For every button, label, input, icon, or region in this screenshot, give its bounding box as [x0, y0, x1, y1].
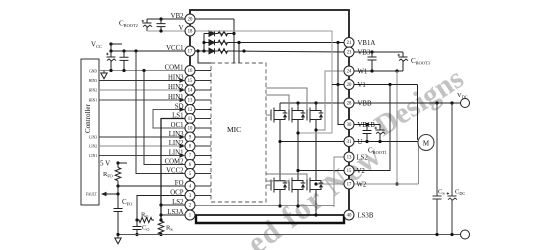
- wire V net left: [147, 29, 185, 32]
- capacitor CBOOT2 electrolytic: [142, 19, 153, 31]
- capacitor C-vcc electrolytic: [106, 51, 116, 71]
- svg-text:VCC: VCC: [91, 41, 102, 50]
- svg-text:LS2: LS2: [172, 199, 184, 206]
- wire W2 internal: [314, 182, 344, 185]
- wire V1 external: [354, 83, 418, 140]
- mosfet Q2 (V high): [266, 95, 305, 127]
- wire LS2 left: [161, 204, 185, 206]
- svg-text:LIN2: LIN2: [89, 145, 97, 149]
- svg-text:VB3: VB3: [358, 49, 371, 56]
- svg-text:LIN1: LIN1: [89, 154, 97, 158]
- svg-text:CO: CO: [142, 225, 149, 232]
- wire LS2 sense internal: [195, 157, 344, 208]
- svg-text:LS3A: LS3A: [167, 209, 183, 216]
- Vcc supply terminal: [91, 41, 122, 52]
- svg-text:16: 16: [188, 69, 193, 74]
- capacitor CBOOT2 label: [119, 20, 138, 29]
- svg-text:MIC: MIC: [227, 125, 241, 134]
- svg-text:CBOOT2: CBOOT2: [119, 20, 138, 29]
- svg-text:Controller: Controller: [84, 104, 92, 133]
- mosfet Q1 (U high): [266, 103, 287, 127]
- motor M: [418, 135, 434, 151]
- svg-text:CFO: CFO: [122, 198, 132, 207]
- wire V2 internal: [296, 169, 344, 172]
- wire VCC1 net: [109, 49, 185, 52]
- svg-text:VCC1: VCC1: [166, 45, 183, 52]
- MIC dashed box U1: [211, 63, 266, 202]
- right pin numbers: [347, 41, 352, 219]
- capacitor C-vcc ceramic: [120, 51, 129, 71]
- svg-text:17: 17: [188, 50, 193, 55]
- wire LS1 down to shunt: [159, 119, 185, 222]
- module outline (SPM package): [190, 10, 349, 215]
- svg-text:FAULT: FAULT: [86, 193, 98, 197]
- resistor RS shunt: [158, 221, 173, 236]
- svg-text:40: 40: [347, 214, 352, 219]
- svg-text:LS3B: LS3B: [358, 212, 374, 219]
- svg-text:HIN1: HIN1: [168, 94, 183, 101]
- capacitor CBOOT2 ceramic: [157, 19, 166, 31]
- wire COM1/GND net: [99, 69, 185, 72]
- wire HIN3: [99, 78, 185, 82]
- wire COM2 from GND: [144, 71, 185, 165]
- svg-text:23: 23: [347, 51, 352, 56]
- wire W2 external to motor: [354, 145, 419, 184]
- svg-text:18: 18: [188, 30, 193, 35]
- resistor RO: [135, 212, 154, 223]
- svg-text:13: 13: [188, 99, 193, 104]
- svg-text:28: 28: [347, 102, 352, 107]
- wire FO: [116, 184, 185, 187]
- svg-text:CS: CS: [438, 189, 445, 196]
- svg-text:GND: GND: [89, 70, 97, 74]
- svg-text:LIN3: LIN3: [89, 136, 97, 140]
- svg-text:VBB: VBB: [358, 100, 372, 107]
- svg-text:24: 24: [347, 70, 352, 75]
- svg-text:RFO: RFO: [103, 171, 113, 178]
- wire HIN1: [99, 98, 185, 102]
- wire VBB to VDC: [354, 101, 461, 104]
- svg-text:LS1: LS1: [172, 113, 183, 120]
- svg-text:U: U: [358, 139, 363, 146]
- controller box: [81, 59, 99, 205]
- wire U phase internal: [278, 140, 344, 143]
- right pin name labels: [357, 40, 376, 220]
- VBB rail internal: [280, 101, 344, 104]
- thick bus LS3A to LS3B: [196, 215, 344, 223]
- phase node verticals: [280, 127, 316, 173]
- wire U external to motor: [354, 141, 418, 143]
- node Q6 source on LS3B line: [314, 213, 317, 216]
- capacitor CDC electrolytic: [447, 103, 466, 236]
- left pin numbers: [188, 18, 193, 219]
- wire LIN3: [99, 135, 185, 139]
- svg-text:LIN1: LIN1: [169, 150, 184, 157]
- 5V supply and resistor RFO: [100, 160, 127, 187]
- svg-text:VB2: VB2: [171, 13, 184, 20]
- svg-text:30: 30: [347, 123, 352, 128]
- capacitor CFO: [114, 194, 133, 235]
- wire W sense to W1: [314, 71, 344, 132]
- wire W net vertical: [395, 71, 398, 186]
- mosfet Q6 (W low): [266, 173, 323, 215]
- svg-text:OC1: OC1: [171, 122, 184, 129]
- svg-text:LIN3: LIN3: [169, 131, 184, 138]
- bootstrap diode D1 + resistor row1: [204, 31, 234, 37]
- wire VB1A to VB1B internal: [338, 43, 344, 125]
- wire LS3A left: [161, 214, 185, 216]
- svg-text:W2: W2: [357, 181, 367, 188]
- ground rail bottom: [115, 233, 465, 244]
- ground symbol (signal gnd arrow): [101, 71, 107, 79]
- svg-text:12: 12: [188, 108, 193, 113]
- svg-text:5 V: 5 V: [100, 160, 110, 168]
- svg-text:CBOOT1: CBOOT1: [368, 147, 387, 156]
- terminal VDC: [457, 92, 470, 108]
- svg-text:V2: V2: [357, 168, 366, 175]
- wires left pins to MIC stubs: [195, 71, 211, 196]
- left pin name labels: [165, 13, 184, 216]
- capacitor CS: [433, 103, 446, 236]
- bootstrap diode D2 + resistor row2 (to VB1A): [204, 40, 344, 63]
- wire HIN2: [99, 88, 185, 92]
- svg-text:V1: V1: [358, 82, 366, 89]
- wire VB2 net left: [147, 17, 185, 20]
- wire FAULT to controller: [101, 186, 120, 196]
- bootstrap diode D3 + resistor row3 (to VB3): [204, 48, 344, 54]
- svg-text:31: 31: [347, 140, 352, 145]
- svg-text:LS2: LS2: [357, 154, 369, 161]
- svg-text:RS: RS: [166, 225, 173, 232]
- svg-text:VB1A: VB1A: [358, 40, 376, 47]
- svg-text:FO: FO: [175, 180, 184, 187]
- svg-text:M: M: [423, 139, 430, 147]
- svg-text:V: V: [179, 25, 184, 32]
- svg-text:21: 21: [347, 41, 352, 46]
- mosfet Q4 (U low): [266, 173, 287, 206]
- svg-text:SD: SD: [175, 104, 184, 111]
- svg-text:10: 10: [188, 127, 193, 132]
- wire V net (V pin to V node): [195, 31, 332, 135]
- mosfet Q3 (W high): [266, 88, 323, 127]
- svg-text:COM1: COM1: [165, 65, 184, 72]
- svg-text:CDC: CDC: [455, 189, 465, 196]
- svg-text:13: 13: [347, 156, 352, 161]
- capacitor CBOOT1 group: [354, 123, 387, 155]
- terminal DC return: [461, 230, 470, 239]
- wire OCP: [137, 196, 185, 221]
- wire V2 external: [354, 85, 390, 171]
- svg-text:W1: W1: [358, 68, 368, 75]
- mosfet Q5 (V low): [266, 173, 305, 206]
- svg-text:HIN3: HIN3: [89, 79, 97, 83]
- capacitor CBOOT3 group: [354, 50, 431, 71]
- svg-text:15: 15: [347, 169, 352, 174]
- svg-text:HIN3: HIN3: [168, 75, 184, 82]
- watermark fragment "Designs": [369, 62, 469, 143]
- svg-text:HIN1: HIN1: [89, 99, 97, 103]
- svg-text:OCP: OCP: [170, 190, 183, 197]
- svg-text:Designs: Designs: [369, 62, 469, 143]
- capacitor CO: [133, 220, 150, 236]
- wire SD / OC1 jumper: [153, 107, 185, 128]
- wire LIN1: [99, 153, 185, 157]
- svg-text:11: 11: [188, 117, 193, 122]
- wire V1 stub: [332, 83, 344, 86]
- svg-text:15: 15: [188, 79, 193, 84]
- right pin circles column: [344, 38, 354, 221]
- svg-text:CBOOT3: CBOOT3: [411, 57, 431, 66]
- left pin circles column: [185, 14, 195, 220]
- svg-text:VB1B: VB1B: [358, 122, 376, 129]
- wire VCC2 from VCC: [136, 51, 185, 174]
- wire W1 external: [354, 69, 403, 72]
- svg-text:14: 14: [188, 89, 193, 94]
- svg-text:17: 17: [347, 183, 352, 188]
- wire VCC1 feed into MIC: [195, 34, 211, 64]
- svg-text:VCC2: VCC2: [166, 168, 184, 175]
- svg-text:HIN2: HIN2: [89, 89, 97, 93]
- svg-text:HIN2: HIN2: [168, 84, 184, 91]
- watermark fragment "ed for New": [240, 137, 388, 250]
- svg-text:20: 20: [188, 18, 193, 23]
- svg-text:LIN2: LIN2: [169, 140, 184, 147]
- wire LIN2: [99, 144, 185, 148]
- svg-text:COM2: COM2: [165, 159, 184, 166]
- wire VB2 to bootstrap row1: [195, 19, 236, 63]
- svg-text:20: 20: [347, 83, 352, 88]
